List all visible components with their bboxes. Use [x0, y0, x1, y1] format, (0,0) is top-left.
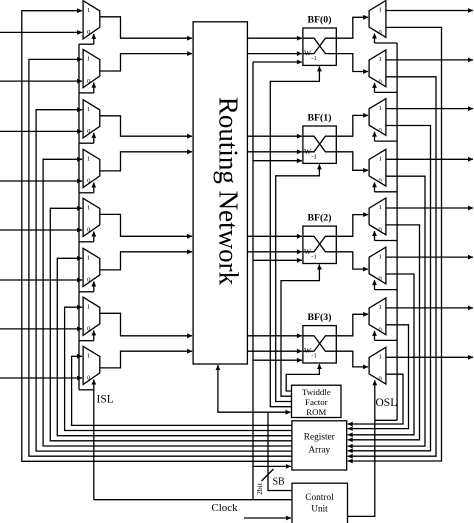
svg-text:Control: Control	[305, 493, 334, 503]
wire routing network output row 3 to BF(1)	[247, 151, 302, 153]
primary input x(6) wire	[0, 328, 82, 330]
svg-text:0: 0	[87, 178, 90, 185]
wire mux M8 output to routing network	[100, 351, 192, 368]
label ISL	[97, 394, 114, 406]
wire routing network output row 7 to BF(3)	[247, 350, 302, 352]
primary input x(2) wire	[0, 130, 82, 132]
svg-text:0: 0	[378, 276, 381, 283]
svg-text:BF(3): BF(3)	[308, 312, 332, 323]
OSL select chain vertical	[396, 43, 398, 420]
feedback wire f(4) to mux M5 input 1	[50, 208, 292, 440]
demux D6 select arrow	[374, 280, 376, 290]
feedback wire demux D8 output 0 to register array	[348, 374, 403, 424]
svg-text:1: 1	[379, 204, 382, 211]
demux D1 select jog wire	[375, 42, 398, 44]
wire mux M3 output to routing network	[100, 116, 192, 136]
svg-text:1: 1	[379, 156, 382, 163]
svg-text:Clock: Clock	[211, 502, 238, 514]
primary input x(7) wire	[0, 377, 82, 379]
mux M4 select arrow	[93, 183, 95, 193]
svg-text:-1: -1	[311, 253, 316, 260]
mux M2 (ISL input mux 2)	[83, 49, 100, 87]
primary input x(0) wire	[0, 31, 82, 33]
wire mux M2 output to routing network	[100, 54, 192, 71]
wire mux M4 output to routing network	[100, 152, 192, 171]
primary input x(4) wire	[0, 229, 82, 231]
feedback wire f(1) to mux M2 input 1	[29, 59, 292, 456]
demux D7 select arrow	[374, 331, 376, 341]
ISL control wire from control unit	[94, 499, 292, 501]
butterfly unit BF(0)	[303, 28, 336, 65]
output wire X(3) to right edge	[386, 158, 473, 160]
demux D3 select jog wire	[375, 140, 398, 142]
twiddle wire ROM to BF(0) bottom input	[270, 66, 319, 406]
output wire X(6) to right edge	[386, 307, 473, 309]
mux M1 (ISL input mux 1)	[83, 1, 100, 39]
control wire arrow into ROM	[268, 411, 291, 413]
W input arrow into BF(2)	[253, 259, 302, 261]
svg-text:1: 1	[87, 205, 90, 212]
svg-text:1: 1	[379, 7, 382, 14]
wire mux M6 output to routing network	[100, 252, 192, 270]
register array block	[292, 421, 347, 470]
mux M3 (ISL input mux 3)	[83, 100, 100, 138]
W input arrow into BF(0)	[253, 61, 302, 63]
output wire X(1) to right edge	[386, 59, 473, 61]
demux D6 (OSL output demux 6)	[369, 247, 386, 284]
svg-text:-1: -1	[311, 353, 316, 360]
demux D1 select arrow	[374, 34, 376, 44]
svg-text:1: 1	[379, 253, 382, 260]
OSL select feed from control unit	[348, 390, 375, 517]
svg-text:SB: SB	[273, 477, 286, 488]
demux D3 (OSL output demux 3)	[369, 99, 386, 136]
svg-text:2bit: 2bit	[255, 482, 264, 495]
wire BF(0) output to demux D1	[336, 17, 368, 38]
svg-text:1: 1	[379, 304, 382, 311]
clock input wire	[244, 517, 291, 519]
svg-text:ROM: ROM	[306, 407, 326, 417]
svg-text:0: 0	[87, 78, 90, 85]
feedback wire demux D3 output 0 to register array	[348, 126, 431, 451]
routing network block	[193, 22, 247, 364]
wire mux M7 output to routing network	[100, 313, 192, 336]
svg-text:0: 0	[87, 29, 90, 36]
output wire X(2) to right edge	[386, 108, 473, 110]
svg-text:ISL: ISL	[97, 394, 114, 406]
butterfly unit BF(1)	[303, 126, 336, 163]
svg-text:0: 0	[378, 127, 381, 134]
demux D7 select jog wire	[375, 339, 398, 341]
mux M4 (ISL input mux 4)	[83, 149, 100, 187]
feedback wire demux D5 output 0 to register array	[348, 225, 420, 440]
mux M2 select arrow	[93, 83, 95, 93]
demux D6 select jog wire	[375, 289, 398, 291]
butterfly unit BF(3)	[303, 326, 336, 363]
svg-text:Twiddle: Twiddle	[302, 387, 331, 397]
ISL select chain vertical	[78, 44, 80, 390]
svg-text:0: 0	[87, 128, 90, 135]
wire routing network output row 2 to BF(1)	[247, 135, 302, 137]
svg-text:1: 1	[379, 105, 382, 112]
output wire X(7) to right edge	[386, 356, 473, 358]
mux M7 select arrow	[93, 330, 95, 340]
feedback wire demux D7 output 0 to register array	[348, 325, 409, 429]
demux D8 select arrow	[374, 380, 376, 390]
wire routing network output row 1 to BF(0)	[247, 53, 302, 55]
svg-text:Unit: Unit	[311, 505, 328, 515]
demux D7 (OSL output demux 7)	[369, 298, 386, 335]
demux D8 (OSL output demux 8)	[369, 347, 386, 384]
label 2bit	[255, 482, 264, 495]
svg-text:0: 0	[378, 29, 381, 36]
mux M5 (ISL input mux 5)	[83, 198, 100, 236]
output wire X(4) to right edge	[386, 207, 473, 209]
mux M7 (ISL input mux 7)	[83, 297, 100, 335]
label BF(1)	[308, 113, 332, 124]
demux D4 select arrow	[374, 182, 376, 192]
svg-text:OSL: OSL	[376, 397, 398, 409]
OSL select chain to feed joint	[375, 419, 397, 421]
svg-text:1: 1	[87, 255, 90, 262]
svg-text:Array: Array	[308, 445, 330, 455]
demux D5 (OSL output demux 5)	[369, 198, 386, 235]
feedback wire f(3) to mux M4 input 1	[43, 159, 292, 446]
demux D4 select jog wire	[375, 191, 398, 193]
feedback wire f(0) to mux M1 input 1	[22, 11, 292, 462]
mux M6 (ISL input mux 6)	[83, 248, 100, 286]
svg-text:Factor: Factor	[305, 397, 328, 407]
svg-text:0: 0	[378, 178, 381, 185]
twiddle wire ROM to BF(3) bottom input	[286, 364, 319, 391]
W input arrow into BF(1)	[253, 160, 302, 162]
svg-text:1: 1	[87, 353, 90, 360]
twiddle wire ROM to BF(1) bottom input	[276, 164, 320, 401]
wire routing network output row 6 to BF(3)	[247, 335, 302, 337]
wire BF(2) output to demux D5	[336, 215, 368, 237]
primary input x(1) wire	[0, 80, 82, 82]
mux M8 (ISL input mux 8)	[83, 346, 100, 384]
output wire X(0) to right edge	[386, 10, 473, 12]
svg-text:BF(1): BF(1)	[308, 113, 332, 124]
feedback wire f(7) to mux M8 input 1	[72, 356, 292, 425]
wire mux M1 output to routing network	[100, 17, 192, 38]
svg-text:-1: -1	[311, 55, 316, 62]
svg-text:1: 1	[379, 56, 382, 63]
mux M8 select arrow	[93, 380, 95, 390]
svg-text:-1: -1	[311, 153, 316, 160]
label BF(3)	[308, 312, 332, 323]
feedback wire demux D6 output 0 to register array	[348, 274, 414, 435]
mux M6 select arrow	[93, 282, 95, 292]
feedback wire f(2) to mux M3 input 1	[36, 110, 292, 451]
label SB	[273, 477, 286, 488]
wire BF(2) output to demux D6	[336, 252, 368, 269]
mux M5 select jog wire	[79, 241, 94, 243]
wire BF(3) output to demux D8	[336, 351, 368, 367]
mux M3 select arrow	[93, 133, 95, 143]
svg-text:0: 0	[378, 326, 381, 333]
feedback wire demux D4 output 0 to register array	[348, 176, 425, 446]
svg-text:BF(0): BF(0)	[308, 15, 332, 26]
demux D2 select jog wire	[375, 91, 398, 93]
svg-text:BF(2): BF(2)	[308, 213, 332, 224]
svg-text:Register: Register	[304, 433, 336, 443]
svg-text:0: 0	[378, 376, 381, 383]
mux M6 select jog wire	[79, 291, 94, 293]
svg-text:0: 0	[378, 226, 381, 233]
twiddle factor ROM block	[292, 385, 342, 417]
demux D2 (OSL output demux 2)	[369, 50, 386, 87]
mux M4 select jog wire	[79, 192, 94, 194]
wire routing network output row 4 to BF(2)	[247, 235, 302, 237]
label BF(0)	[308, 15, 332, 26]
svg-text:1: 1	[87, 156, 90, 163]
twiddle wire ROM to BF(2) bottom input	[281, 265, 319, 397]
mux M1 select jog wire	[79, 43, 94, 45]
wire routing network output row 5 to BF(2)	[247, 251, 302, 253]
demux D1 (OSL output demux 1)	[369, 1, 386, 38]
svg-text:0: 0	[378, 78, 381, 85]
svg-text:1: 1	[87, 56, 90, 63]
label OSL	[376, 397, 398, 409]
feedback wire f(6) to mux M7 input 1	[65, 307, 292, 430]
output wire X(5) to right edge	[386, 256, 473, 258]
wire BF(1) output to demux D3	[336, 115, 368, 136]
wire BF(1) output to demux D4	[336, 152, 368, 171]
svg-text:1: 1	[87, 106, 90, 113]
feedback wire demux D1 output 0 to register array	[348, 27, 442, 461]
ISL select chain to feed joint	[79, 389, 94, 391]
svg-text:1: 1	[87, 7, 90, 14]
demux D5 select arrow	[374, 231, 376, 241]
mux M3 select jog wire	[79, 142, 94, 144]
mux M2 select jog wire	[79, 92, 94, 94]
wire BF(3) output to demux D7	[336, 314, 368, 336]
feedback wire f(5) to mux M6 input 1	[57, 258, 292, 435]
demux D5 select jog wire	[375, 240, 398, 242]
svg-text:0: 0	[87, 277, 90, 284]
svg-text:1: 1	[87, 303, 90, 310]
control wire to routing network and ROM	[218, 365, 292, 491]
SB bus-width slash	[262, 469, 274, 481]
label Clock	[211, 502, 238, 514]
feedback wire demux D2 output 0 to register array	[348, 77, 436, 456]
SB wire into register array	[253, 465, 291, 467]
primary input x(3) wire	[0, 180, 82, 182]
demux D2 select arrow	[374, 83, 376, 93]
ISL select feed from control unit	[93, 390, 95, 500]
label BF(2)	[308, 213, 332, 224]
W bus vertical from control unit	[252, 62, 254, 500]
svg-text:0: 0	[87, 375, 90, 382]
mux M5 select arrow	[93, 232, 95, 242]
wire mux M5 output to routing network	[100, 214, 192, 236]
svg-text:Routing Network: Routing Network	[214, 97, 244, 286]
demux D4 (OSL output demux 4)	[369, 149, 386, 186]
mux M1 select arrow	[93, 34, 95, 44]
svg-text:1: 1	[379, 354, 382, 361]
control unit block	[292, 483, 348, 523]
wire BF(0) output to demux D2	[336, 54, 368, 72]
wire routing network output row 0 to BF(0)	[247, 37, 302, 39]
svg-text:0: 0	[87, 227, 90, 234]
primary input x(5) wire	[0, 279, 82, 281]
demux D3 select arrow	[374, 132, 376, 142]
svg-text:0: 0	[87, 326, 90, 333]
W input arrow into BF(3)	[253, 359, 302, 361]
mux M7 select jog wire	[79, 340, 94, 342]
butterfly unit BF(2)	[303, 226, 336, 263]
